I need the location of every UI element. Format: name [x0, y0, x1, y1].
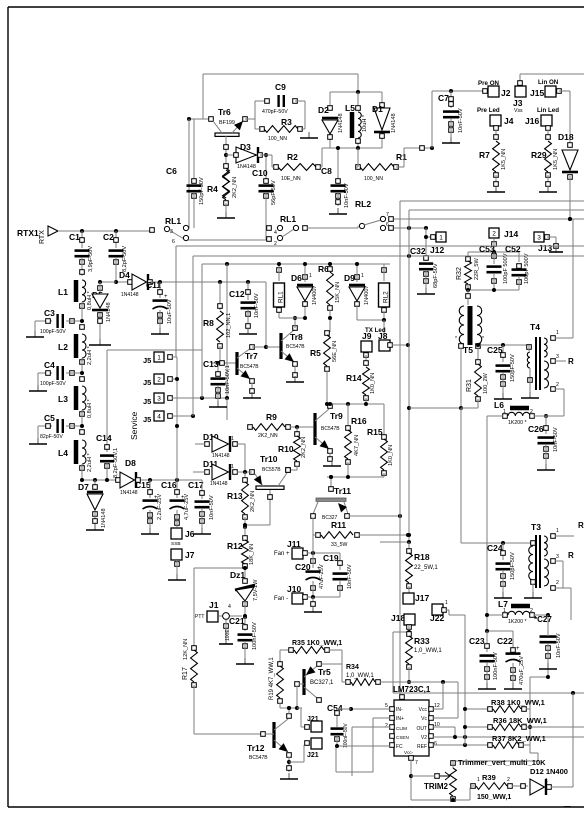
- connector J14: [489, 228, 499, 238]
- inductor L3: [80, 377, 85, 382]
- wire J15 to D18: [559, 90, 570, 92]
- svg-text:R8: R8: [203, 318, 214, 328]
- svg-text:J7: J7: [185, 550, 195, 560]
- svg-text:2: 2: [556, 580, 559, 586]
- svg-text:TRIM2: TRIM2: [424, 782, 449, 791]
- wire Tr12 emitter: [288, 757, 290, 772]
- diode D3: [226, 154, 234, 156]
- svg-text:C13: C13: [203, 359, 219, 369]
- svg-text:470uF_25V: 470uF_25V: [519, 656, 525, 685]
- svg-text:1N4007: 1N4007: [364, 285, 370, 305]
- ground under C24: [502, 592, 504, 598]
- svg-text:C32: C32: [410, 246, 426, 256]
- wire RL1b pole to RL2: [307, 227, 358, 229]
- svg-text:1,0_WW,1: 1,0_WW,1: [346, 673, 374, 679]
- svg-text:4K7_NN: 4K7_NN: [354, 435, 360, 456]
- svg-text:BC547B: BC547B: [240, 364, 259, 370]
- svg-text:1: 1: [545, 778, 548, 784]
- wire L6 left: [487, 415, 503, 417]
- ground under C21: [244, 658, 246, 664]
- svg-text:L4: L4: [58, 448, 68, 458]
- wire Tr7 emitter: [251, 383, 253, 394]
- wire C16 column upper: [176, 357, 178, 480]
- wire Tr5 base node: [280, 707, 297, 709]
- ground under Tr12: [288, 773, 290, 779]
- svg-text:RTX1: RTX1: [17, 228, 39, 238]
- wire Tr6 collector: [188, 119, 190, 228]
- diode D4: [116, 281, 130, 283]
- svg-text:D12 1N400: D12 1N400: [530, 767, 568, 776]
- connector J21 b: [311, 738, 322, 749]
- wire R left rail: [465, 708, 490, 710]
- svg-text:15K_NN: 15K_NN: [335, 282, 341, 303]
- wire node B rail: [329, 137, 331, 148]
- svg-text:R36 18K_WW,1: R36 18K_WW,1: [493, 716, 547, 725]
- wire trim bottom: [411, 799, 470, 801]
- svg-text:1N4148: 1N4148: [106, 302, 112, 322]
- wire IC pin7 down: [410, 760, 412, 800]
- wire Tr7 base: [212, 362, 236, 364]
- page border frame: [8, 6, 584, 8]
- svg-text:R19 4K7_WW,1: R19 4K7_WW,1: [269, 657, 275, 700]
- ground under C23: [486, 683, 488, 689]
- wire T3 pin1: [555, 535, 574, 537]
- svg-text:C11: C11: [146, 280, 161, 290]
- wire T4 pin3: [555, 360, 566, 362]
- svg-text:3: 3: [157, 396, 161, 403]
- svg-text:J2: J2: [501, 88, 511, 98]
- svg-text:1K200 *: 1K200 *: [508, 420, 526, 426]
- bus wire 3: [202, 263, 390, 265]
- svg-text:Fan -: Fan -: [274, 596, 288, 602]
- svg-text:56pF-50V: 56pF-50V: [271, 180, 277, 205]
- svg-text:100pF 500V: 100pF 500V: [503, 253, 509, 284]
- ground under C8: [337, 208, 339, 214]
- svg-text:10nF-50V: 10nF-50V: [556, 633, 562, 658]
- svg-text:2: 2: [530, 409, 533, 415]
- svg-text:2,2uH *: 2,2uH *: [87, 346, 93, 365]
- wire lower node: [327, 476, 384, 478]
- wire IC clim: [352, 726, 390, 728]
- svg-text:2: 2: [556, 382, 559, 388]
- svg-text:12K_NN: 12K_NN: [183, 639, 189, 660]
- svg-text:R18: R18: [414, 552, 430, 562]
- wire R18 feed: [380, 541, 409, 543]
- svg-text:BC547B: BC547B: [249, 755, 268, 761]
- ground under R7: [495, 186, 497, 192]
- svg-text:C5: C5: [44, 413, 55, 423]
- svg-text:Vss: Vss: [514, 108, 523, 114]
- capacitor C8: [337, 148, 339, 182]
- svg-text:1K200 *: 1K200 *: [508, 619, 526, 625]
- resistor R17: [192, 646, 197, 651]
- ground under C3: [34, 331, 36, 337]
- svg-text:BF199: BF199: [219, 120, 235, 126]
- svg-text:1K5_NN: 1K5_NN: [553, 149, 559, 170]
- svg-text:1N4148: 1N4148: [101, 508, 107, 528]
- transistor Tr12: [272, 722, 275, 748]
- inductor L2: [80, 325, 85, 330]
- wire long net x408: [409, 209, 584, 211]
- wire D9/RL2 node: [356, 305, 358, 320]
- capacitor C9: [255, 100, 267, 102]
- svg-text:+: +: [516, 646, 520, 652]
- ground under J13: [555, 246, 557, 252]
- svg-text:Tr10: Tr10: [260, 454, 278, 464]
- svg-text:Lin ON: Lin ON: [538, 79, 559, 86]
- svg-text:RL2: RL2: [355, 199, 371, 209]
- svg-text:100_NN: 100_NN: [364, 176, 383, 182]
- svg-text:BC327,1: BC327,1: [310, 680, 334, 686]
- bus wire 2: [193, 255, 584, 257]
- svg-text:C14: C14: [96, 433, 112, 443]
- ground under R4: [225, 212, 227, 218]
- svg-text:SSB: SSB: [171, 541, 181, 547]
- svg-text:C3: C3: [44, 308, 55, 318]
- wire J3 top rail: [520, 73, 584, 75]
- svg-text:Tr6: Tr6: [218, 107, 231, 117]
- resistor R31: [476, 360, 481, 365]
- resistor R4: [225, 151, 227, 168]
- svg-text:3: 3: [556, 554, 559, 560]
- wire R17 to Tr12: [194, 733, 262, 735]
- svg-text:T4: T4: [530, 322, 540, 332]
- svg-text:2,2uF-25V: 2,2uF-25V: [157, 494, 163, 520]
- svg-text:J14: J14: [504, 229, 518, 239]
- svg-text:1N4148: 1N4148: [210, 481, 228, 487]
- wire IC fc / C54 bottom: [337, 745, 390, 747]
- svg-text:R9: R9: [266, 412, 277, 422]
- svg-text:C22: C22: [497, 636, 513, 646]
- wire J14 rail: [468, 251, 519, 253]
- svg-text:Service: Service: [129, 411, 139, 440]
- svg-text:10nF-50V,1: 10nF-50V,1: [225, 365, 231, 394]
- svg-text:7: 7: [415, 760, 418, 766]
- svg-text:100_NN: 100_NN: [268, 136, 287, 142]
- svg-text:102_NN,1: 102_NN,1: [226, 313, 232, 338]
- svg-text:Vcc: Vcc: [419, 707, 428, 713]
- svg-text:D18: D18: [558, 132, 574, 142]
- wire D4 out rail: [150, 281, 266, 283]
- svg-text:2: 2: [530, 608, 533, 614]
- svg-text:2,2uH *: 2,2uH *: [87, 453, 93, 472]
- wire T4 pin1: [555, 337, 573, 339]
- svg-text:J22: J22: [430, 613, 444, 623]
- svg-text:22R_5W: 22R_5W: [474, 258, 480, 280]
- ground under C11: [159, 328, 161, 334]
- transistor Tr11: [330, 477, 332, 492]
- svg-text:C4: C4: [44, 360, 55, 370]
- svg-text:RTX: RTX: [39, 230, 46, 244]
- connector J12: [426, 236, 432, 238]
- resistor R7: [495, 130, 497, 140]
- svg-text:REF: REF: [417, 744, 427, 750]
- svg-text:100pF-50V: 100pF-50V: [40, 381, 66, 387]
- svg-text:10nF-50V: 10nF-50V: [458, 108, 464, 133]
- svg-text:1K0_NN: 1K0_NN: [388, 445, 394, 466]
- svg-text:6: 6: [172, 239, 175, 245]
- svg-text:100nF-50V: 100nF-50V: [343, 723, 349, 748]
- inductor T4 aux: [527, 345, 532, 350]
- ground under C27: [547, 663, 549, 669]
- svg-text:R13: R13: [227, 491, 243, 501]
- relay coil RL2: [382, 268, 387, 273]
- wire fan gnd: [312, 597, 314, 608]
- capacitor C10: [265, 155, 267, 181]
- svg-text:150pF-50V: 150pF-50V: [199, 177, 205, 205]
- ground under C15: [149, 528, 151, 534]
- svg-text:C19: C19: [323, 553, 339, 563]
- svg-text:18K_NN: 18K_NN: [249, 544, 255, 565]
- bus wire 1: [176, 245, 584, 247]
- svg-text:Trimmer_vert_multi_10K: Trimmer_vert_multi_10K: [458, 758, 546, 767]
- ground under Tr7: [251, 392, 253, 398]
- svg-text:3: 3: [537, 235, 541, 242]
- svg-text:V2: V2: [421, 735, 427, 741]
- diode D5: [100, 281, 116, 283]
- svg-text:C17: C17: [188, 480, 204, 490]
- ground under C13: [217, 401, 219, 407]
- svg-text:10nF-50V: 10nF-50V: [553, 427, 559, 452]
- svg-text:C10: C10: [252, 168, 268, 178]
- svg-text:100nF-50V: 100nF-50V: [252, 622, 258, 650]
- svg-text:C12: C12: [229, 289, 245, 299]
- ground right of R3: [308, 132, 310, 138]
- wire IC in+: [373, 717, 390, 719]
- svg-text:R: R: [568, 357, 574, 366]
- svg-text:R11: R11: [331, 520, 346, 530]
- wire L6 right: [534, 415, 564, 417]
- svg-text:PTT: PTT: [195, 614, 204, 620]
- svg-text:R12: R12: [227, 541, 243, 551]
- svg-text:33_5W: 33_5W: [331, 542, 348, 548]
- svg-text:12: 12: [434, 703, 440, 709]
- ground under J7: [176, 574, 178, 580]
- svg-text:4,7uF-25V: 4,7uF-25V: [184, 494, 190, 520]
- wire Tr9 collector node: [330, 403, 384, 405]
- connector J13: [534, 232, 544, 242]
- svg-text:100nF-50V: 100nF-50V: [493, 652, 499, 680]
- svg-text:56E_NN: 56E_NN: [332, 341, 338, 362]
- svg-text:CLIM: CLIM: [396, 726, 407, 731]
- svg-text:*: *: [455, 336, 457, 342]
- svg-text:D3: D3: [240, 142, 251, 152]
- transistor Tr7: [235, 352, 238, 375]
- svg-text:BC547B: BC547B: [286, 344, 305, 350]
- wire IC in- / C54: [351, 708, 390, 710]
- svg-text:J5: J5: [143, 415, 151, 424]
- resistor R18: [407, 549, 412, 554]
- svg-text:R5: R5: [310, 348, 321, 358]
- svg-text:R1: R1: [396, 152, 407, 162]
- svg-text:IN+: IN+: [396, 716, 404, 722]
- svg-text:C15: C15: [135, 480, 151, 490]
- resistor R33: [407, 632, 412, 637]
- ground under Tr8: [294, 376, 296, 382]
- svg-text:R34: R34: [346, 664, 359, 671]
- svg-text:1: 1: [503, 608, 506, 614]
- svg-text:Tr9: Tr9: [330, 411, 343, 421]
- svg-text:2K2_NN: 2K2_NN: [232, 177, 238, 198]
- svg-text:C9: C9: [275, 82, 286, 92]
- ground under C25: [502, 393, 504, 399]
- svg-text:Tr12: Tr12: [247, 743, 265, 753]
- inductor L4: [80, 430, 85, 435]
- svg-text:CSEN: CSEN: [396, 735, 409, 740]
- svg-text:R10: R10: [278, 444, 294, 454]
- svg-text:R33: R33: [414, 636, 430, 646]
- svg-text:L2: L2: [58, 342, 68, 352]
- wire L7 right: [534, 614, 548, 616]
- resistor R8: [219, 282, 221, 310]
- wire T3 pin3: [555, 560, 563, 562]
- wire R33 bottom: [408, 667, 410, 682]
- svg-text:R29: R29: [531, 150, 547, 160]
- svg-text:R7: R7: [479, 150, 490, 160]
- svg-text:10uH *: 10uH *: [362, 114, 368, 132]
- svg-text:2: 2: [507, 777, 510, 783]
- ground under D5: [99, 339, 101, 345]
- ground under C7: [450, 137, 452, 143]
- svg-text:OUT: OUT: [416, 726, 427, 732]
- wire Tr9 emitter: [329, 453, 331, 461]
- svg-text:1: 1: [309, 273, 312, 279]
- svg-text:C26: C26: [528, 424, 544, 434]
- svg-text:L3: L3: [58, 394, 68, 404]
- svg-text:1: 1: [231, 436, 234, 442]
- wire R1 left: [357, 148, 359, 167]
- svg-text:82pF-50V: 82pF-50V: [40, 434, 63, 440]
- svg-text:D1: D1: [372, 104, 383, 114]
- svg-text:22_5W,1: 22_5W,1: [414, 565, 438, 571]
- svg-text:L5: L5: [345, 103, 355, 113]
- svg-text:R17: R17: [182, 667, 189, 680]
- svg-text:470pF-50V: 470pF-50V: [262, 109, 288, 115]
- ground under J10: [312, 606, 314, 612]
- svg-text:2: 2: [157, 377, 161, 384]
- svg-text:J21: J21: [307, 752, 319, 759]
- svg-text:*: *: [482, 336, 484, 342]
- wire T3 rail: [460, 408, 462, 543]
- svg-text:R31: R31: [466, 379, 473, 392]
- svg-text:__: __: [563, 801, 571, 807]
- wire IC out/v2: [433, 726, 455, 728]
- ground under C4: [37, 385, 39, 391]
- svg-text:RL1: RL1: [165, 216, 181, 226]
- inductor L1: [80, 270, 85, 275]
- wire R2 left: [262, 154, 272, 156]
- connector J3: [518, 81, 523, 86]
- ground under C32: [425, 288, 427, 294]
- ground under C12: [247, 328, 249, 334]
- svg-text:1N4148: 1N4148: [391, 113, 397, 133]
- svg-text:Lin Led: Lin Led: [537, 107, 559, 114]
- svg-text:BC557B: BC557B: [262, 467, 281, 473]
- svg-text:R15: R15: [367, 427, 383, 437]
- inductor L5: [350, 112, 355, 138]
- wire L7 left: [449, 614, 465, 616]
- wire Tr10 collector join: [245, 524, 270, 526]
- transistor Tr9: [313, 413, 316, 445]
- resistor R14: [365, 355, 367, 366]
- svg-text:Fan +: Fan +: [274, 551, 290, 557]
- svg-text:150_WW,1: 150_WW,1: [477, 794, 511, 801]
- capacitor C6: [187, 184, 202, 187]
- svg-text:2K2_NN: 2K2_NN: [250, 491, 256, 512]
- svg-text:1K0_NN: 1K0_NN: [370, 373, 376, 394]
- ground under D7: [94, 524, 96, 530]
- svg-text:1,0_WW,1: 1,0_WW,1: [414, 648, 442, 654]
- svg-text:J5: J5: [143, 397, 151, 406]
- wire R10 to Tr10: [288, 469, 297, 471]
- wire IC vcc+: [433, 708, 443, 710]
- resistor R2: [278, 164, 316, 171]
- svg-text:1: 1: [477, 777, 480, 783]
- svg-text:R: R: [578, 521, 584, 530]
- wire Tr6 emitter node: [245, 118, 255, 120]
- svg-text:*C27: *C27: [534, 615, 552, 624]
- svg-text:BC547B: BC547B: [321, 426, 340, 432]
- svg-text:10nF-50V: 10nF-50V: [254, 293, 260, 318]
- svg-text:+: +: [164, 294, 168, 300]
- svg-text:0,8uH *: 0,8uH *: [87, 399, 93, 418]
- svg-text:47uF-25V: 47uF-25V: [319, 564, 325, 589]
- svg-text:J9: J9: [362, 331, 372, 341]
- svg-text:10uF-50V: 10uF-50V: [167, 299, 173, 324]
- wire R17 column: [194, 567, 245, 569]
- svg-text:1: 1: [361, 273, 364, 279]
- wire IC vc: [433, 717, 458, 719]
- resistor R3: [264, 126, 298, 133]
- svg-text:R: R: [568, 551, 574, 560]
- svg-text:C16: C16: [161, 480, 177, 490]
- svg-text:3: 3: [556, 354, 559, 360]
- svg-text:8,2pF-50V,1: 8,2pF-50V,1: [113, 448, 119, 478]
- svg-text:J17: J17: [415, 593, 429, 603]
- svg-text:J16: J16: [525, 116, 539, 126]
- svg-text:1N4148: 1N4148: [121, 292, 139, 298]
- svg-text:1: 1: [556, 330, 559, 336]
- wire L7 left2: [487, 614, 503, 616]
- wire node A rail: [330, 91, 382, 93]
- svg-text:1N4148: 1N4148: [338, 113, 344, 133]
- svg-text:100_2W: 100_2W: [483, 372, 489, 394]
- svg-text:C23: C23: [469, 636, 485, 646]
- ground under C17: [201, 528, 203, 534]
- svg-text:J5: J5: [143, 356, 151, 365]
- resistor R29: [547, 130, 549, 140]
- wire Tr8 collector: [294, 318, 296, 328]
- svg-text:Pre Led: Pre Led: [477, 107, 500, 114]
- svg-text:Tr8: Tr8: [290, 332, 303, 342]
- svg-text:J15: J15: [530, 88, 544, 98]
- wire Tr11 left leg: [312, 518, 314, 553]
- svg-text:J4: J4: [504, 116, 514, 126]
- svg-text:J3: J3: [513, 98, 523, 108]
- svg-text:2K2_NN: 2K2_NN: [258, 433, 278, 439]
- svg-text:C6: C6: [166, 166, 177, 176]
- svg-text:R16: R16: [351, 416, 367, 426]
- connector J7: [171, 549, 182, 560]
- wire C23 rail: [487, 630, 513, 632]
- svg-text:Tr7: Tr7: [245, 351, 258, 361]
- svg-text:1: 1: [157, 355, 161, 362]
- svg-text:RL2: RL2: [383, 291, 390, 303]
- svg-text:IN-: IN-: [396, 707, 403, 713]
- wire Tr12 collector: [288, 708, 290, 714]
- svg-text:2: 2: [492, 231, 496, 238]
- svg-text:D9: D9: [344, 273, 355, 283]
